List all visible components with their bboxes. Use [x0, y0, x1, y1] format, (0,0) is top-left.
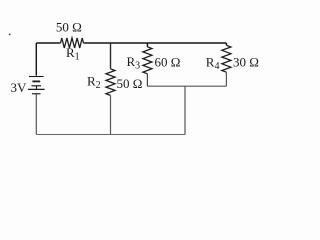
wire R2 bottom lead	[110, 95, 112, 134]
wire center drop from bottom bus	[184, 86, 186, 134]
svg-text:50 Ω: 50 Ω	[56, 20, 82, 35]
battery plate short bottom	[32, 93, 41, 95]
svg-text:60 Ω: 60 Ω	[155, 55, 181, 70]
resistor R3	[143, 47, 152, 74]
battery plate long top	[29, 76, 44, 78]
wire R2 top lead	[110, 43, 112, 69]
resistor R1	[61, 38, 84, 48]
wire R3 top lead	[146, 43, 148, 47]
battery plate short middle	[32, 85, 42, 87]
wire R4 top lead	[225, 43, 227, 45]
battery plate short thick	[32, 80, 40, 82]
wire top rail left of R1	[36, 42, 60, 44]
stray mark (scan artifact)	[9, 34, 11, 36]
wire top rail R1 to R4 branch	[84, 42, 227, 44]
battery plate long bottom	[28, 88, 45, 90]
battery internal stub	[36, 86, 38, 90]
wire R3 bottom lead	[146, 74, 148, 86]
wire battery top lead	[35, 43, 37, 76]
resistor R2	[106, 69, 115, 96]
svg-text:30 Ω: 30 Ω	[233, 55, 259, 70]
wire parallel-bank bottom bus	[147, 85, 226, 87]
resistor R4	[222, 45, 231, 72]
svg-text:50 Ω: 50 Ω	[117, 76, 143, 91]
wire R4 bottom lead	[225, 72, 227, 86]
svg-text:3V: 3V	[11, 80, 28, 95]
wire bottom return rail	[36, 134, 185, 136]
wire battery bottom lead	[35, 94, 37, 134]
